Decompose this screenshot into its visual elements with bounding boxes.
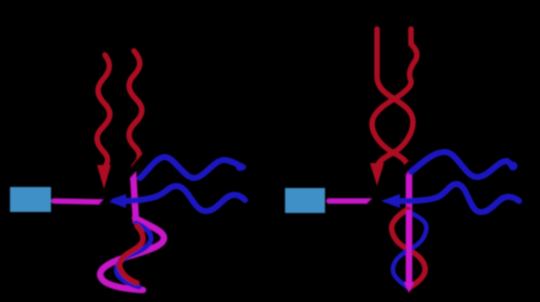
magenta RNA exit line (left, horizontal) (54, 201, 106, 202)
magenta RNA exit line (right, horizontal) (329, 198, 372, 204)
magenta vertical nascent line (left) (133, 172, 136, 222)
magenta vertical nascent line (right, through loops) (406, 176, 413, 284)
red supercoiled strand A (top-left, crosses, ends with down arrow) (377, 29, 413, 165)
red arrowhead on strand A (right) (370, 163, 384, 186)
blue arrowhead at junction (left, points left) (107, 194, 126, 208)
blue end dot (right upper) (509, 162, 518, 171)
black occluding diagonal (right junction) (368, 158, 416, 207)
RNA polymerase box (left) (10, 187, 51, 212)
blue arrowhead at junction (right, points left) (381, 194, 400, 208)
blue RNA wave upper (left) (140, 157, 243, 178)
RNA polymerase box (right) (285, 188, 325, 213)
red arrowhead on strand A (left) (97, 165, 111, 189)
red supercoiled strand B (top-right with wiggle, crosses, joins magenta) (372, 29, 417, 171)
red DNA strand left-upper B (wavy, joins magenta vertical) (129, 51, 142, 171)
black occluding diagonal (left junction) (101, 150, 150, 207)
S-fold structure (red inner strand) (120, 226, 143, 283)
S-fold structure (blue middle strand) (116, 223, 151, 287)
blue end dot (left upper) (236, 163, 244, 171)
blue RNA wave lower (left) (122, 186, 245, 211)
blue RNA wave lower (right) (396, 184, 519, 212)
blue RNA wave upper (right) (411, 152, 512, 177)
red DNA strand left-upper A (wavy, ends with down arrow) (97, 55, 110, 168)
S-fold structure below (magenta outer strand) (100, 218, 164, 290)
magenta overlay through loops (406, 210, 412, 283)
plectoneme loop red strand (right bottom) (392, 209, 426, 288)
magenta arrowhead at bottom (right) (404, 282, 414, 293)
plectoneme loop blue strand (right bottom) (393, 212, 427, 288)
